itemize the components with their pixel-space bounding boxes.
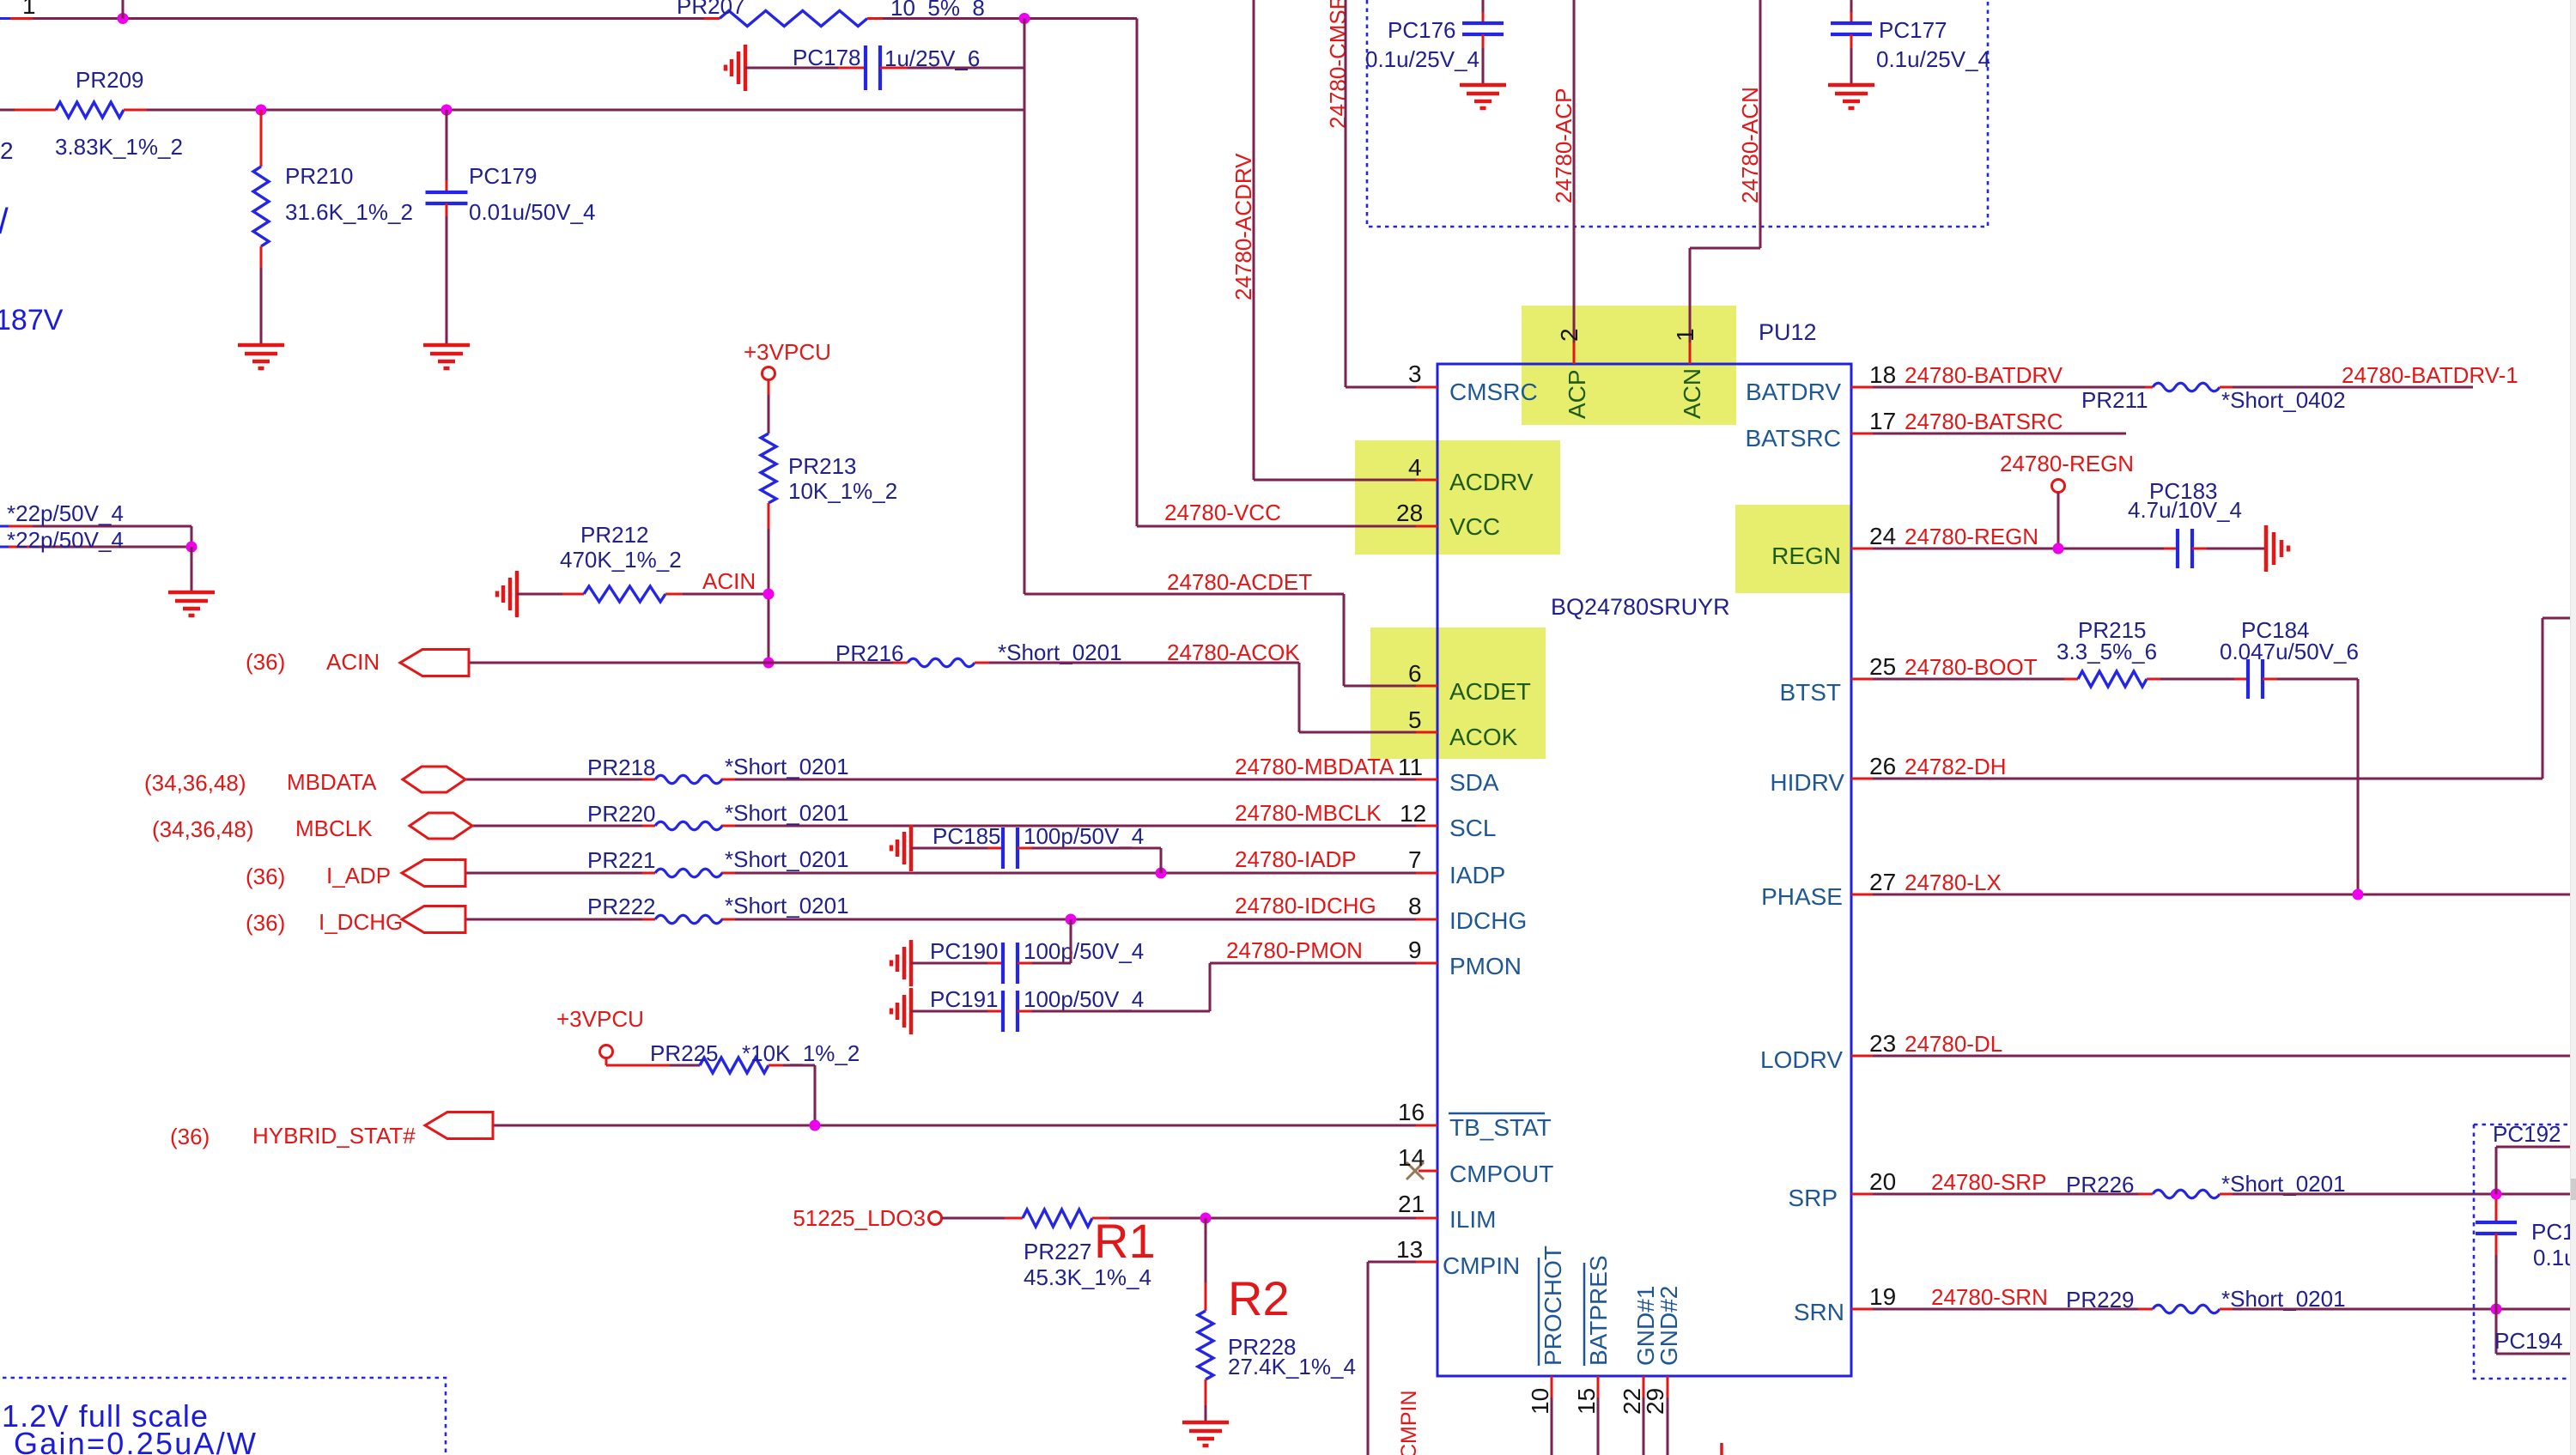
svg-text:24780-SRN: 24780-SRN [1931, 1284, 2048, 1310]
pin name VCC [1449, 513, 1500, 540]
resistor PR221 label [587, 847, 656, 873]
capacitor PC190 [1003, 943, 1018, 984]
wire +3VPCU down [768, 380, 770, 433]
wire PR210 to ground [260, 246, 263, 343]
net label HYBRID_STAT# [252, 1123, 416, 1149]
svg-text:24780-IADP: 24780-IADP [1235, 846, 1357, 872]
connector I_ADP arrow [402, 860, 465, 887]
resistor PR216 label [835, 640, 904, 666]
svg-text:24780-MBCLK: 24780-MBCLK [1235, 800, 1382, 826]
svg-text:PR209: PR209 [76, 67, 144, 93]
wire PR207 to corner [867, 17, 1137, 20]
svg-text:REGN: REGN [1771, 543, 1841, 569]
wire R2 upper [1205, 1218, 1207, 1311]
svg-text:24780-DL: 24780-DL [1905, 1031, 2002, 1057]
svg-text:BQ24780SRUYR: BQ24780SRUYR [1551, 594, 1730, 620]
net label CMPIN vertical [1397, 1390, 1421, 1455]
label Gain=0.25uA/W [14, 1426, 256, 1455]
svg-text:SCL: SCL [1449, 815, 1496, 841]
pin number 15 vertical [1573, 1388, 1600, 1415]
resistor PR218 value *Short_0201 [725, 754, 849, 779]
pin name HIDRV [1770, 769, 1844, 796]
sheet ref (34,36,48) MBDATA [144, 770, 246, 796]
wire ACDET vertical from top net [1024, 19, 1026, 595]
resistor PR215 [2078, 671, 2147, 687]
svg-text:HYBRID_STAT#: HYBRID_STAT# [252, 1123, 416, 1149]
connector MBDATA [403, 767, 465, 792]
capacitor PC177 wire upper [1850, 0, 1853, 23]
net label 24780-PMON [1226, 937, 1363, 963]
svg-text:SRN: SRN [1794, 1299, 1844, 1325]
ground PC190 sideways [891, 940, 911, 986]
svg-text:5: 5 [1408, 706, 1422, 733]
resistor PR211 value *Short_0402 [2221, 387, 2346, 413]
wire PHASE LX [1851, 894, 2576, 896]
svg-text:ACOK: ACOK [1449, 724, 1518, 750]
svg-text:24780-REGN: 24780-REGN [1905, 524, 2038, 549]
resistor PR211 [2153, 383, 2220, 391]
capacitor PC178 [866, 45, 880, 90]
svg-text:18: 18 [1869, 361, 1896, 388]
svg-text:100p/50V_4: 100p/50V_4 [1024, 823, 1144, 849]
svg-text:*22p/50V_4: *22p/50V_4 [7, 500, 124, 526]
power +3VPCU pin circle 2 [600, 1046, 613, 1058]
connector MBCLK [410, 813, 472, 839]
ground PC179 [423, 345, 470, 368]
pin name PHASE [1761, 883, 1843, 910]
wire PR209 net off-page stub [0, 109, 56, 112]
svg-text:100p/50V_4: 100p/50V_4 [1024, 986, 1144, 1012]
net label 24780-BATDRV [1905, 362, 2063, 388]
pin name ACOK [1449, 724, 1518, 750]
svg-text:45.3K_1%_4: 45.3K_1%_4 [1024, 1264, 1151, 1290]
scrollbar track artifact [2571, 0, 2576, 1455]
resistor PR218 label [587, 755, 656, 780]
net label 24780-ACP vertical [1551, 88, 1577, 203]
resistor PR225 [700, 1058, 769, 1073]
label 1.2V full scale [2, 1398, 208, 1434]
wire SRN [1851, 1308, 2153, 1311]
svg-text:51225_LDO3: 51225_LDO3 [793, 1205, 926, 1231]
ground PC183 sideways [2266, 525, 2288, 572]
highlight box ACDRV/VCC pins [1355, 440, 1560, 555]
net label MBCLK [295, 815, 373, 841]
pin number 9 [1408, 937, 1422, 963]
pin number 5 [1408, 706, 1422, 733]
svg-text:PC177: PC177 [1879, 17, 1947, 43]
capacitor PC191 value 100p/50V_4 [1024, 986, 1144, 1012]
svg-text:14: 14 [1398, 1144, 1425, 1171]
net label 24780-VCC [1164, 500, 1281, 525]
svg-text:SDA: SDA [1449, 769, 1499, 796]
svg-text:(36): (36) [246, 649, 285, 675]
IC PU12 BQ24780SRUYR body [1437, 364, 1851, 1376]
svg-text:4.7u/10V_4: 4.7u/10V_4 [2128, 497, 2242, 523]
pin name ACDET [1449, 678, 1531, 705]
svg-text:3: 3 [1408, 361, 1422, 387]
capacitor PC178 label [793, 45, 861, 70]
svg-text:15: 15 [1573, 1388, 1600, 1415]
wire PR212 to ACIN node [665, 593, 769, 596]
sheet ref (36) I_ADP [246, 864, 285, 889]
resistor PR207 value 10_5%_8 [890, 0, 985, 21]
node junction REGN [2053, 543, 2064, 555]
resistor PR225 label [650, 1040, 719, 1066]
svg-text:PR229: PR229 [2066, 1287, 2135, 1313]
svg-text:24780-LX: 24780-LX [1905, 870, 2002, 895]
pin number 28 [1396, 500, 1423, 526]
svg-text:17: 17 [1869, 408, 1896, 434]
svg-text:24780-VCC: 24780-VCC [1164, 500, 1281, 525]
wire PC185 right to junction [1018, 848, 1161, 873]
svg-text:(36): (36) [246, 864, 285, 889]
svg-text:0.047u/50V_6: 0.047u/50V_6 [2220, 639, 2359, 664]
ground PC191 sideways [891, 988, 911, 1034]
pin circle 24780-REGN [2052, 480, 2065, 493]
svg-text:PR226: PR226 [2066, 1172, 2135, 1197]
svg-text:13: 13 [1396, 1236, 1423, 1263]
dashed box AC sense [1367, 0, 1988, 227]
svg-text:24: 24 [1869, 523, 1896, 549]
node junction SRP/PC193 [2491, 1189, 2502, 1200]
capacitor PC191 [1003, 991, 1018, 1032]
wire IDCHG [465, 918, 1437, 921]
pin name ACP vertical [1564, 369, 1590, 419]
svg-text:GND#2: GND#2 [1656, 1286, 1682, 1366]
svg-text:PR221: PR221 [587, 847, 656, 873]
wire REGN [1851, 548, 2178, 550]
pin name ACDRV [1449, 469, 1534, 495]
net label 24780-IADP [1235, 846, 1357, 872]
pin name BATSRC [1746, 425, 1842, 452]
scrollbar thumb artifact [2571, 1179, 2576, 1200]
capacitor PC178 value 1u/25V_6 [884, 45, 980, 71]
svg-text:3.83K_1%_2: 3.83K_1%_2 [55, 134, 183, 160]
wire PC191 left [911, 1010, 1003, 1013]
node junction PR210 [256, 105, 267, 116]
dashed box snubber [2474, 1125, 2576, 1379]
svg-text:25: 25 [1869, 653, 1896, 680]
resistor PR228 label [1228, 1334, 1297, 1360]
resistor PR222 label [587, 894, 656, 919]
pin number 13 [1396, 1236, 1423, 1263]
pin number 1 vertical [1672, 328, 1698, 342]
net label 24780-ACN vertical [1737, 87, 1763, 203]
svg-text:PC176: PC176 [1388, 17, 1456, 43]
svg-text:+3VPCU: +3VPCU [556, 1006, 644, 1032]
svg-text:24780-SRP: 24780-SRP [1931, 1169, 2046, 1195]
svg-text:31.6K_1%_2: 31.6K_1%_2 [285, 199, 413, 225]
pin number 26 [1869, 753, 1896, 779]
wire PC191 right to PMON [1018, 963, 1210, 1011]
wire PC192 [2496, 1147, 2576, 1194]
svg-text:PC190: PC190 [930, 938, 999, 964]
wire BATDRV [1851, 386, 2153, 389]
IC ref label PU12 [1759, 319, 1817, 345]
sheet ref (36) I_DCHG [246, 910, 285, 936]
svg-text:0.1u/25V_4: 0.1u/25V_4 [1365, 46, 1479, 72]
pin number 12 [1400, 800, 1426, 827]
svg-text:CMSRC: CMSRC [1449, 379, 1538, 405]
node top net junction A [118, 0, 129, 24]
pin 14 stub with no-connect X [1406, 1162, 1437, 1179]
pin name IDCHG [1449, 907, 1527, 934]
svg-text:HIDRV: HIDRV [1770, 769, 1844, 796]
pin name BATDRV [1746, 379, 1841, 405]
wire PR216 to pin 5 [975, 663, 1437, 732]
highlight box ACDET/ACOK pins [1370, 627, 1546, 759]
pin number 1 label [22, 0, 36, 19]
svg-text:470K_1%_2: 470K_1%_2 [560, 547, 682, 573]
pin name SRP [1788, 1185, 1838, 1211]
resistor PR213 [761, 433, 776, 503]
pin name PROCHOT vertical with overline [1539, 1246, 1566, 1366]
resistor PR227 value 45.3K_1%_4 [1024, 1264, 1151, 1290]
label slash mark [0, 201, 9, 241]
resistor PR228 value 27.4K_1%_4 [1228, 1354, 1356, 1379]
red stub bottom right [1720, 1443, 1723, 1455]
capacitor PC176 [1462, 23, 1504, 34]
node junction at x1193 top [1019, 13, 1030, 24]
svg-text:27.4K_1%_4: 27.4K_1%_4 [1228, 1354, 1356, 1379]
capacitor PC183 label [2149, 478, 2218, 504]
net label 51225_LDO3 [793, 1205, 926, 1231]
svg-text:ACIN: ACIN [326, 649, 380, 675]
wire SRP [1851, 1193, 2153, 1196]
wire LODRV DL [1851, 1055, 2576, 1058]
svg-text:12: 12 [1400, 800, 1426, 827]
net label 24780-MBCLK [1235, 800, 1382, 826]
IC part number BQ24780SRUYR [1551, 594, 1730, 620]
net label 24780-BATSRC [1905, 409, 2063, 434]
pin name CMSRC [1449, 379, 1538, 405]
svg-text:ACDRV: ACDRV [1449, 469, 1534, 495]
svg-text:PMON: PMON [1449, 953, 1522, 979]
resistor PR226 [2153, 1190, 2220, 1198]
wire BATSRC [1851, 433, 2126, 435]
wire ACDET horizontal [1024, 593, 1344, 596]
sheet ref (34,36,48) MBCLK [152, 816, 254, 842]
svg-text:PR207: PR207 [677, 0, 745, 19]
resistor PR211 label [2081, 387, 2148, 413]
svg-text:24780-ACDET: 24780-ACDET [1167, 569, 1312, 595]
wire ACDRV net [1254, 0, 1437, 480]
resistor PR209 label [76, 67, 144, 93]
svg-text:4: 4 [1408, 454, 1422, 481]
svg-text:100p/50V_4: 100p/50V_4 [1024, 938, 1144, 964]
highlight box ACP/ACN pins [1522, 306, 1736, 425]
ground PC176 [1460, 85, 1506, 108]
svg-text:PR220: PR220 [587, 801, 656, 827]
svg-text:PHASE: PHASE [1761, 883, 1843, 910]
svg-text:I_ADP: I_ADP [326, 863, 391, 888]
svg-text:BATPRES: BATPRES [1585, 1255, 1612, 1366]
svg-text:24780-IDCHG: 24780-IDCHG [1235, 893, 1376, 918]
svg-text:24780-ACOK: 24780-ACOK [1167, 640, 1300, 665]
svg-text:R1: R1 [1094, 1214, 1156, 1268]
capacitor PC193 value 0.1u [2533, 1245, 2576, 1270]
wire ACN to pin 1 [1690, 0, 1760, 364]
svg-text:0.1u/25V_4: 0.1u/25V_4 [1876, 46, 1990, 72]
pin name CMPIN [1443, 1252, 1520, 1279]
svg-text:1: 1 [1672, 328, 1698, 342]
pin 15 BATPRES stub [1597, 1376, 1600, 1455]
svg-text:PC193: PC193 [2531, 1219, 2576, 1245]
svg-text:27: 27 [1869, 869, 1896, 895]
resistor PR221 value *Short_0201 [725, 846, 849, 872]
svg-text:9: 9 [1408, 937, 1422, 963]
net label I_ADP [326, 863, 391, 888]
svg-text:PR227: PR227 [1024, 1239, 1092, 1264]
net label 24780-ACDET [1167, 569, 1312, 595]
wire PC185 left [911, 847, 1003, 850]
wire PMON [1210, 962, 1437, 965]
capacitor PC183 [2178, 529, 2192, 568]
net label ACIN [702, 568, 756, 594]
sheet ref (36) ACIN [246, 649, 285, 675]
net label 24780-ACDRV vertical [1230, 153, 1256, 300]
svg-text:24780-BATDRV: 24780-BATDRV [1905, 362, 2063, 388]
resistor PR220 label [587, 801, 656, 827]
wire SRN right [2220, 1308, 2576, 1311]
svg-text:PC191: PC191 [930, 986, 999, 1012]
wire BATDRV-1 [2220, 386, 2473, 389]
svg-text:2: 2 [0, 137, 14, 164]
label 2 off-page [0, 137, 14, 164]
capacitor PC190 value 100p/50V_4 [1024, 938, 1144, 964]
wire MBCLK [472, 825, 1437, 828]
net label MBDATA [287, 769, 377, 795]
svg-text:187V: 187V [0, 304, 64, 336]
resistor PR210 label [285, 163, 354, 189]
pin number 10 vertical [1527, 1388, 1553, 1415]
resistor PR229 label [2066, 1287, 2135, 1313]
capacitor label *22p/50V_4 lower [7, 527, 124, 553]
pin number 11 [1398, 754, 1423, 780]
capacitor PC179 value 0.01u/50V_4 [469, 199, 595, 225]
wire PR227 to ILIM pin 21 [1092, 1217, 1437, 1220]
svg-text:IADP: IADP [1449, 862, 1505, 888]
svg-text:PROCHOT: PROCHOT [1540, 1246, 1566, 1366]
resistor PR213 value 10K_1%_2 [788, 478, 897, 504]
svg-text:10: 10 [1527, 1388, 1553, 1415]
pin number 16 [1398, 1099, 1425, 1125]
svg-text:(36): (36) [170, 1124, 210, 1149]
pin 10 PROCHOT stub [1551, 1376, 1553, 1455]
resistor PR226 label [2066, 1172, 2135, 1197]
pin number 27 [1869, 869, 1896, 895]
pin name ACN vertical [1679, 368, 1705, 419]
pin name CMPOUT [1449, 1161, 1553, 1187]
wire PC177 lower [1850, 34, 1853, 83]
resistor PR207 label [677, 0, 745, 19]
wire PR215 to PC184 [2147, 678, 2248, 681]
pin name BTST [1779, 679, 1841, 706]
wire PC190 right to junction [1018, 919, 1071, 963]
svg-text:CMPOUT: CMPOUT [1449, 1161, 1553, 1187]
pin number 17 [1869, 408, 1896, 434]
svg-text:PR218: PR218 [587, 755, 656, 780]
IC PU12 border [1437, 364, 1851, 1376]
ground 22p [168, 592, 215, 615]
svg-text:VCC: VCC [1449, 513, 1500, 540]
net label 24780-DL [1905, 1031, 2002, 1057]
wire PR225 to HYBRID junction [769, 1065, 815, 1125]
svg-text:ACDET: ACDET [1449, 678, 1531, 705]
pin number 14 [1398, 1144, 1425, 1171]
power +3VPCU pin circle [762, 367, 775, 380]
resistor PR212 [584, 586, 665, 602]
wire HIDRV DH [1851, 618, 2576, 779]
net label 24780-ACOK [1167, 640, 1300, 665]
resistor PR212 label [580, 522, 649, 548]
capacitor PC179 [426, 192, 468, 203]
pin 29 GND#2 stub [1667, 1376, 1669, 1455]
svg-text:PR222: PR222 [587, 894, 656, 919]
svg-text:24780-BATDRV-1: 24780-BATDRV-1 [2342, 362, 2518, 388]
svg-text:BATDRV: BATDRV [1746, 379, 1841, 405]
svg-text:PR210: PR210 [285, 163, 354, 189]
ground PR228 [1182, 1422, 1229, 1446]
wire VCC net vertical [1136, 19, 1139, 527]
svg-text:(34,36,48): (34,36,48) [152, 816, 254, 842]
svg-text:0.1u/50V_4: 0.1u/50V_4 [2533, 1245, 2576, 1270]
svg-text:MBDATA: MBDATA [287, 769, 377, 795]
pin number 21 [1398, 1191, 1425, 1217]
wire top net horizontal [33, 17, 720, 20]
wire PC184 to LX [2263, 679, 2358, 894]
resistor PR215 label [2078, 617, 2147, 643]
pin name GND#2 vertical [1656, 1286, 1682, 1366]
net label 24780-SRN [1931, 1284, 2048, 1310]
pin name SCL [1449, 815, 1496, 841]
wire 22p to ground [191, 547, 193, 591]
svg-text:ACN: ACN [1679, 368, 1705, 419]
pin number 19 [1869, 1283, 1896, 1310]
pin number 4 [1408, 454, 1422, 481]
svg-text:PC194: PC194 [2494, 1328, 2563, 1354]
svg-text:PR211: PR211 [2081, 387, 2148, 413]
connector I_DCHG arrow [402, 906, 465, 933]
svg-text:11: 11 [1398, 754, 1423, 780]
svg-text:ACIN: ACIN [702, 568, 756, 594]
net label I_DCHG [319, 909, 403, 935]
svg-text:*Short_0201: *Short_0201 [725, 754, 849, 779]
pin name SDA [1449, 769, 1499, 796]
resistor PR213 label [788, 453, 857, 479]
svg-text:*Short_0402: *Short_0402 [2221, 387, 2346, 413]
wire LDO3 to PR227 [942, 1217, 1023, 1220]
ground PR210 [238, 345, 284, 368]
pin number 3 [1408, 361, 1422, 387]
net label 24782-DH [1905, 754, 2007, 779]
wire top net off-page stub [0, 17, 33, 20]
svg-text:24782-DH: 24782-DH [1905, 754, 2007, 779]
resistor PR210 [253, 110, 269, 246]
pin 22 GND#1 stub [1643, 1376, 1645, 1455]
svg-text:PC179: PC179 [469, 163, 538, 189]
label R1 [1094, 1214, 1156, 1268]
resistor PR222 [655, 915, 722, 924]
capacitor PC185 [1003, 828, 1018, 869]
svg-text:*22p/50V_4: *22p/50V_4 [7, 527, 124, 553]
resistor PR221 [655, 869, 722, 877]
net label 24780-MBDATA [1235, 754, 1394, 779]
net label 24780-REGN [1905, 524, 2038, 549]
resistor PR215 value 3.3_5%_6 [2057, 639, 2157, 664]
svg-text:21: 21 [1398, 1191, 1425, 1217]
label 187V [0, 304, 64, 336]
